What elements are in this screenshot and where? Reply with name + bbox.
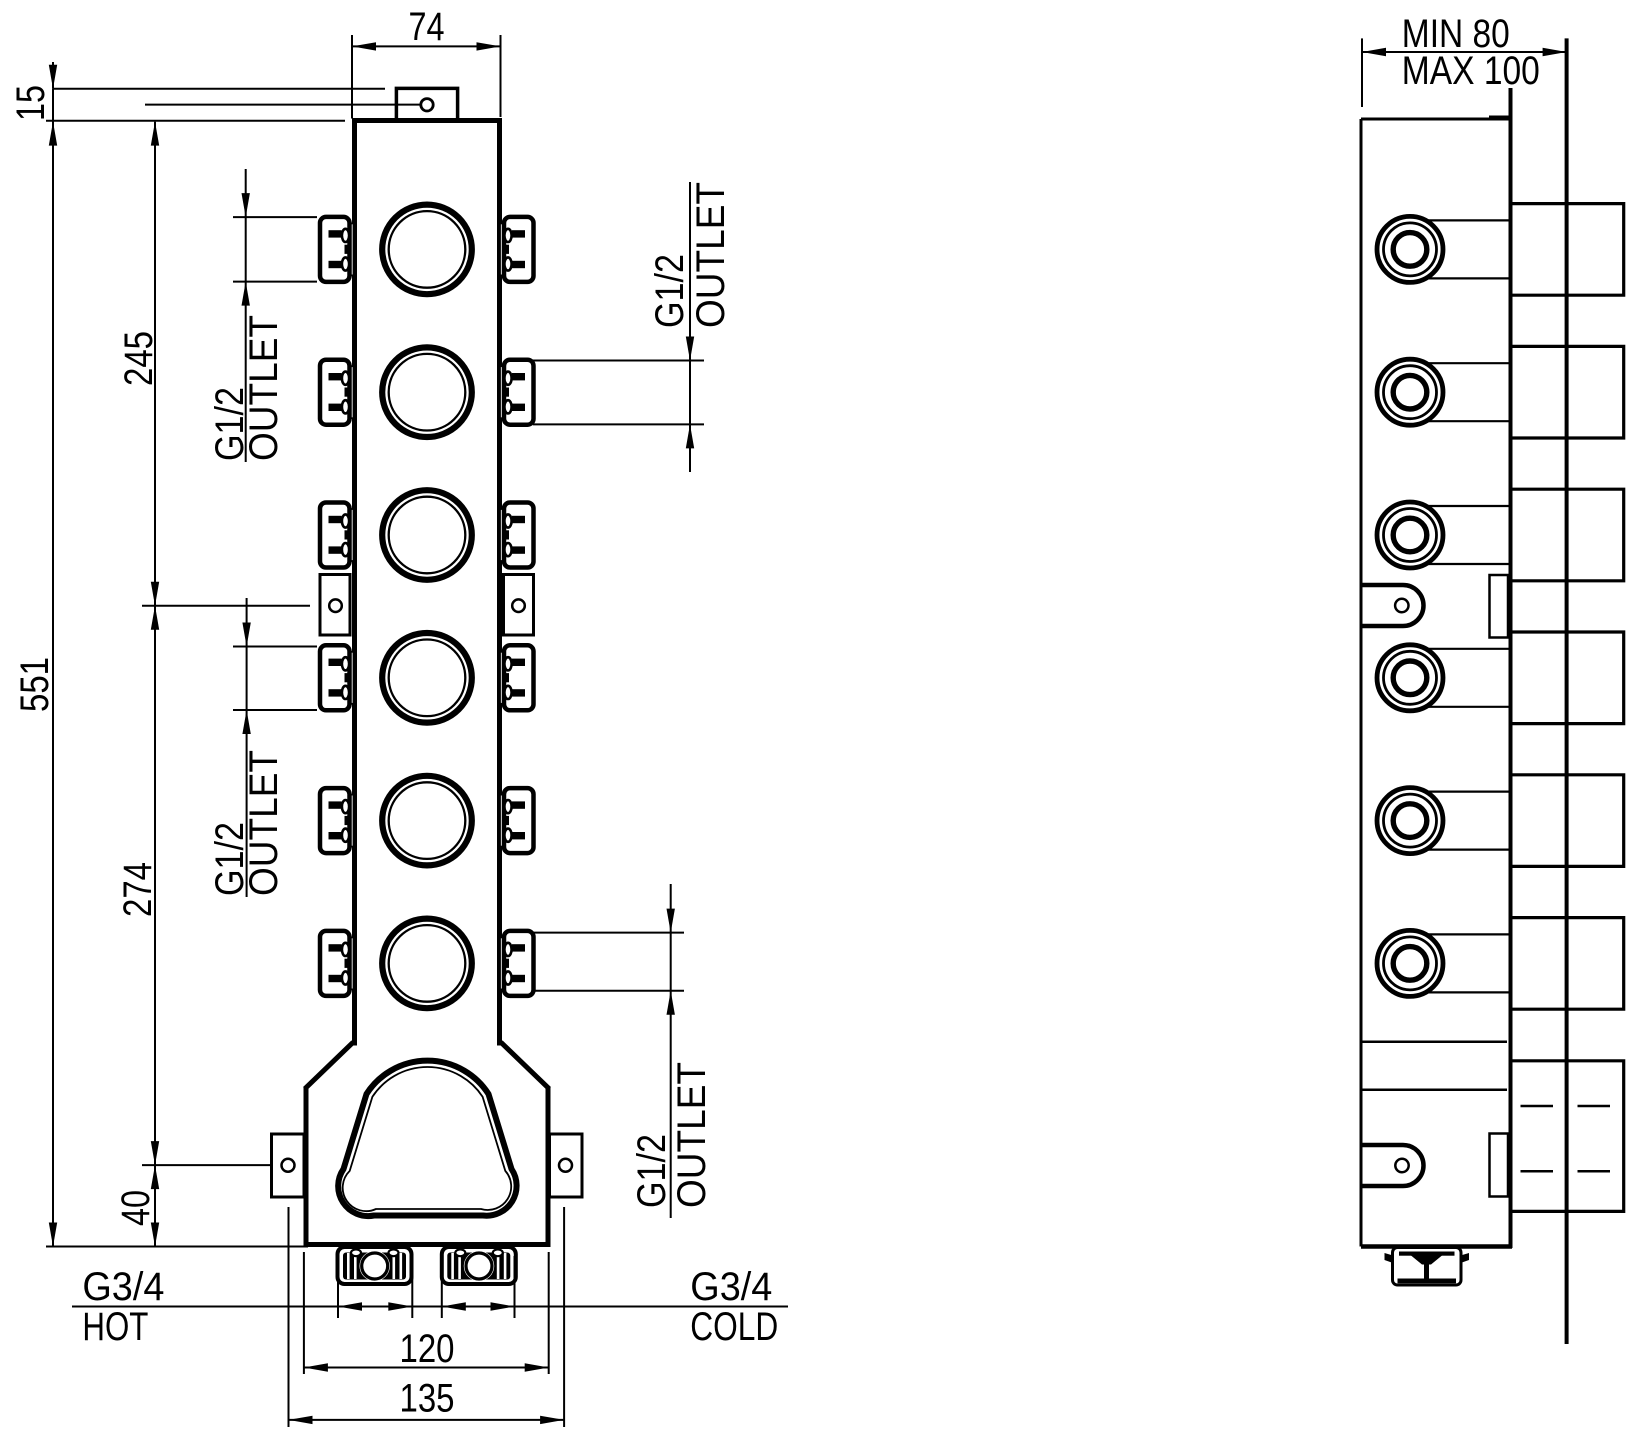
front view: top mounting tab bbox=[396, 88, 457, 120]
front view: left outlet fitting 6 bbox=[320, 931, 354, 996]
dimension: G1/2 outlet upper-right bbox=[533, 182, 733, 472]
svg-text:135: 135 bbox=[400, 1377, 455, 1421]
label: G3/4 COLD bbox=[690, 1265, 778, 1349]
svg-text:40: 40 bbox=[114, 1190, 158, 1226]
dimension: 40 bbox=[114, 1165, 159, 1246]
front view: valve body outline bbox=[304, 118, 550, 1247]
side view: body outline bbox=[1361, 88, 1512, 1248]
front view: port opening 6 bbox=[382, 919, 472, 1009]
extension line: body bottom bbox=[46, 1246, 308, 1248]
leader line: G3/4 inlets bbox=[72, 1256, 788, 1318]
front view: port opening 1 bbox=[382, 205, 472, 295]
dimension: 74 top width bbox=[352, 5, 501, 119]
side view: inlet nut edge-on bbox=[1385, 1248, 1470, 1286]
side view: trim knob 5 bbox=[1512, 775, 1624, 867]
dimension: G1/2 outlet lower-left bbox=[208, 598, 317, 897]
svg-text:120: 120 bbox=[400, 1327, 455, 1371]
extension line: tab top bbox=[53, 88, 385, 90]
side view: outlet fitting 1 bbox=[1377, 216, 1511, 282]
front view: upper right mounting bracket bbox=[504, 575, 534, 636]
extension line: lower bracket center bbox=[142, 1164, 272, 1166]
dimension: 15 tab offset bbox=[9, 62, 57, 121]
svg-text:G1/2: G1/2 bbox=[630, 1134, 674, 1208]
svg-text:G1/2: G1/2 bbox=[648, 254, 692, 328]
front view: left outlet fitting 1 bbox=[320, 217, 354, 282]
dimension: 245 bbox=[117, 122, 310, 1247]
svg-text:G3/4: G3/4 bbox=[690, 1265, 772, 1309]
side view: upper bracket ear bbox=[1361, 585, 1423, 626]
leader line: tab hole bbox=[145, 104, 420, 106]
side view: trim knob 1 bbox=[1512, 204, 1624, 296]
svg-text:245: 245 bbox=[117, 331, 161, 386]
svg-text:OUTLET: OUTLET bbox=[242, 750, 286, 896]
side view: trim knob 3 bbox=[1512, 489, 1624, 581]
front view: port opening 3 bbox=[382, 490, 472, 580]
svg-text:OUTLET: OUTLET bbox=[242, 315, 286, 461]
side view: upper bracket plate bbox=[1490, 575, 1509, 638]
dimension: 274 bbox=[116, 606, 272, 1165]
side view: top tab edge-on bbox=[1489, 116, 1509, 120]
dimension: G1/2 outlet upper-left bbox=[208, 169, 317, 462]
svg-text:MAX 100: MAX 100 bbox=[1402, 49, 1540, 93]
side view: bottom trim box bbox=[1512, 1061, 1624, 1212]
front view: right outlet fitting 1 bbox=[500, 217, 534, 282]
front view: upper left mounting bracket bbox=[320, 575, 350, 636]
extension line: body top bbox=[46, 120, 345, 122]
side view: trim knob 2 bbox=[1512, 346, 1624, 438]
side view: outlet fitting 3 bbox=[1377, 502, 1511, 568]
front view: lower trapezoid opening bbox=[338, 1061, 516, 1216]
side view: lower bracket plate bbox=[1490, 1134, 1509, 1197]
front view: left outlet fitting 2 bbox=[320, 360, 354, 425]
front view: port opening 5 bbox=[382, 776, 472, 866]
front view: port opening 4 bbox=[382, 633, 472, 723]
dimension: 551 overall height bbox=[13, 89, 308, 1247]
side view: lower bracket ear bbox=[1361, 1145, 1423, 1186]
svg-text:15: 15 bbox=[9, 85, 53, 121]
label: G3/4 HOT bbox=[82, 1265, 164, 1349]
svg-text:551: 551 bbox=[13, 657, 57, 712]
front view: left outlet fitting 5 bbox=[320, 788, 354, 853]
front view: right outlet fitting 6 bbox=[500, 931, 534, 996]
front view: left outlet fitting 3 bbox=[320, 503, 354, 568]
side view: outlet fitting 2 bbox=[1377, 359, 1511, 425]
extension lines: hot inlet bbox=[337, 1256, 339, 1318]
side view: outlet fitting 5 bbox=[1377, 788, 1511, 854]
front view: hot inlet nut G3/4 bbox=[338, 1247, 412, 1284]
front view: right outlet fitting 3 bbox=[500, 503, 534, 568]
svg-text:74: 74 bbox=[409, 5, 445, 49]
svg-text:OUTLET: OUTLET bbox=[670, 1062, 714, 1208]
front view: left outlet fitting 4 bbox=[320, 645, 354, 710]
side view: outlet fitting 6 bbox=[1377, 930, 1511, 996]
svg-text:HOT: HOT bbox=[82, 1305, 148, 1349]
front view: lower left mounting bracket bbox=[272, 1134, 305, 1197]
dimension: 135 bracket spacing bbox=[289, 1207, 565, 1427]
dimension: 120 inlet spacing bbox=[304, 1252, 549, 1374]
front view: right outlet fitting 4 bbox=[500, 645, 534, 710]
svg-text:274: 274 bbox=[116, 862, 160, 917]
extension line: upper bracket center bbox=[142, 605, 310, 607]
extension lines: cold inlet bbox=[441, 1256, 443, 1318]
front view: port opening 2 bbox=[382, 347, 472, 437]
svg-text:OUTLET: OUTLET bbox=[689, 182, 733, 328]
front view: lower right mounting bracket bbox=[550, 1134, 583, 1197]
front view: right outlet fitting 5 bbox=[500, 788, 534, 853]
svg-text:G3/4: G3/4 bbox=[82, 1265, 164, 1309]
svg-text:COLD: COLD bbox=[690, 1305, 778, 1349]
side view: trim knob 6 bbox=[1512, 918, 1624, 1010]
dimension: G1/2 outlet lower-right bbox=[533, 884, 714, 1218]
dimension: MIN 80 / MAX 100 depth bbox=[1362, 12, 1567, 107]
side view: finished wall line bbox=[1565, 38, 1569, 1344]
front view: cold inlet nut G3/4 bbox=[442, 1247, 516, 1284]
side view: outlet fitting 4 bbox=[1377, 645, 1511, 711]
side view: trim knob 4 bbox=[1512, 632, 1624, 724]
front view: right outlet fitting 2 bbox=[500, 360, 534, 425]
